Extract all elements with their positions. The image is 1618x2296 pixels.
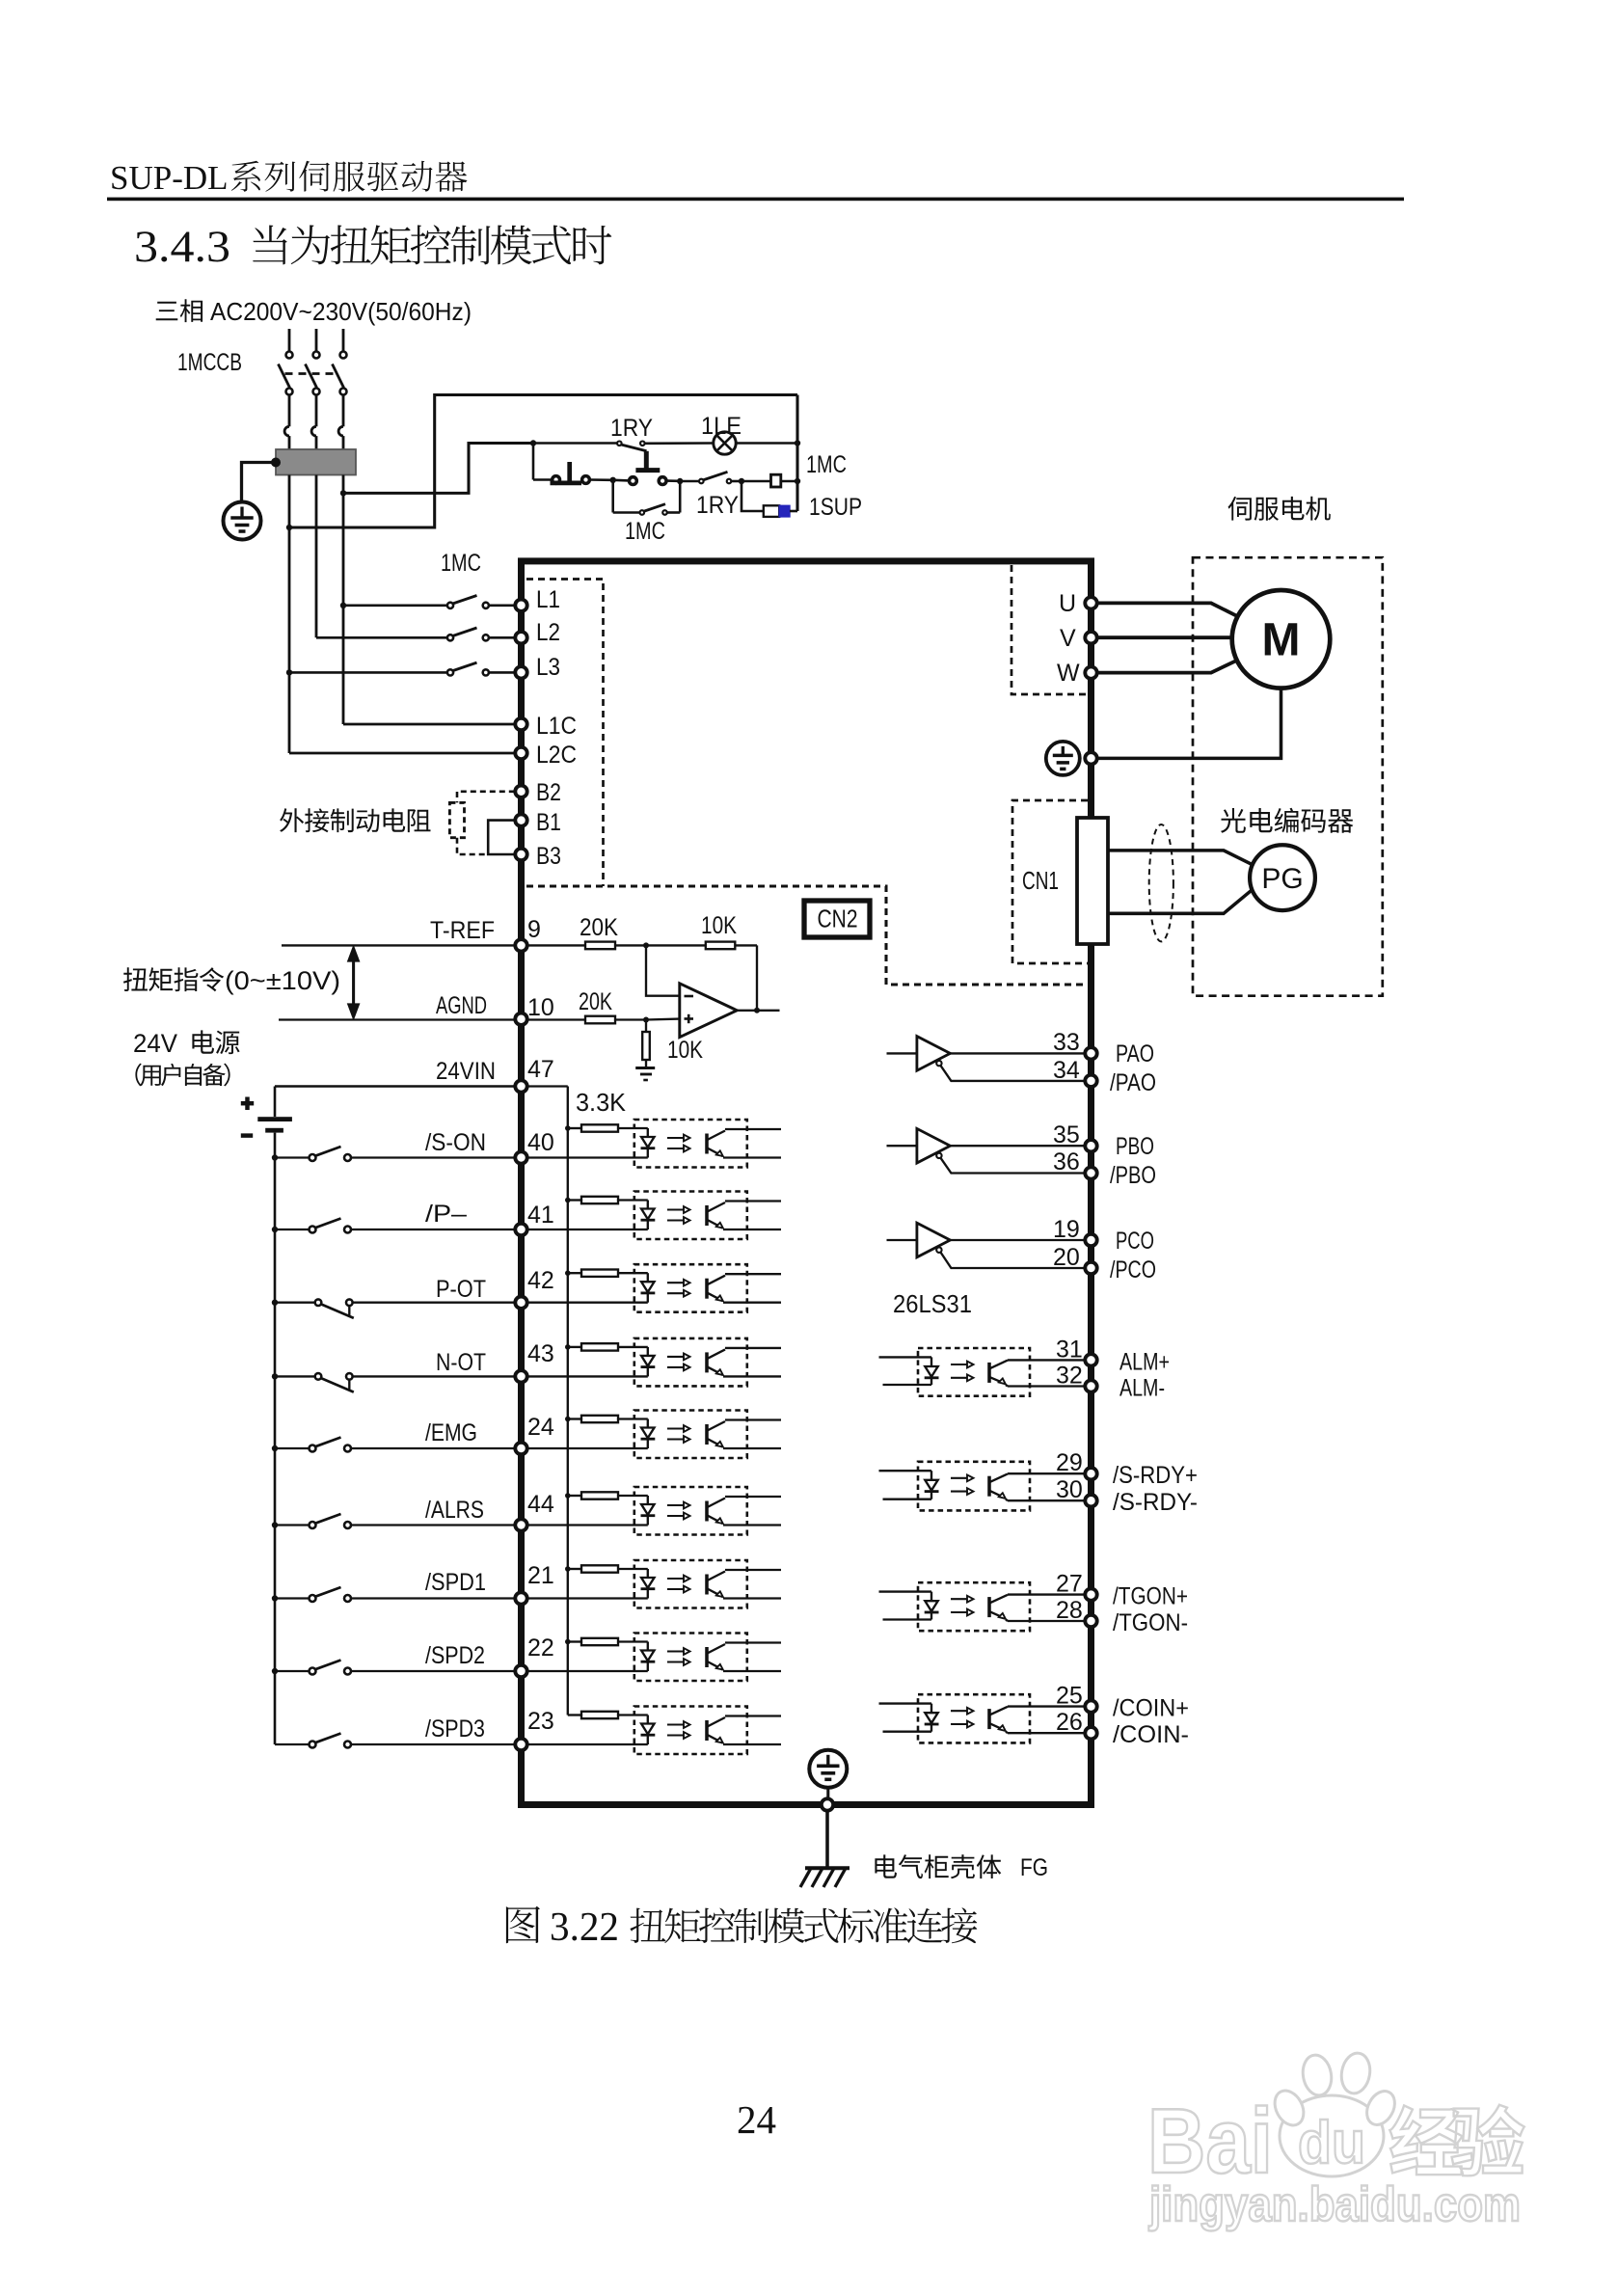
svg-text:1RY: 1RY [610,415,653,442]
label user supplied [135,1064,229,1087]
terminal pin 33 [1085,1047,1096,1059]
pushbutton stop (NC) [533,478,553,481]
svg-text:20K: 20K [579,988,612,1015]
wire pin47 to pull-up bus [527,1085,568,1087]
connector label CN2 [804,901,870,937]
resistor 10K feedback [646,944,706,946]
node top-right corner [795,440,800,446]
node phase R control tap [340,490,346,496]
svg-text:32: 32 [1056,1363,1083,1390]
terminal pin 9 [515,939,526,951]
terminal V [1085,632,1096,643]
svg-text:41: 41 [527,1202,554,1229]
wire FG to chassis [825,1811,829,1869]
svg-text:44: 44 [527,1491,554,1518]
earth electrode symbol (left) [224,502,261,540]
label torque command 0-±10V [123,967,224,991]
label external braking resistor [280,808,431,832]
terminal pin 26 [1085,1727,1096,1739]
jumper B1-B3 [488,821,515,854]
svg-text:33: 33 [1053,1029,1080,1056]
terminal U [1085,597,1096,608]
svg-text:3.4.3: 3.4.3 [134,222,230,272]
dashed UVW terminal group box [1011,565,1088,694]
wire relay rail down to stop button [532,444,535,480]
svg-text:(0~±10V): (0~±10V) [225,966,340,995]
svg-text:PBO: PBO [1116,1133,1154,1160]
battery 24V [274,1087,277,1118]
svg-text:/ALRS: /ALRS [425,1497,484,1524]
svg-text:M: M [1262,615,1301,666]
servo drive enclosure [522,561,1092,1805]
svg-text:CN2: CN2 [818,905,858,933]
wire B2 dashed to resistor [457,792,515,803]
opto-isolator input [634,1634,747,1682]
svg-text:U: U [1059,590,1076,617]
line driver 26LS31 for PBO [887,1145,917,1147]
svg-text:/PBO: /PBO [1110,1162,1156,1189]
terminal pin 31 [1085,1354,1096,1365]
svg-text:du: du [1298,2110,1365,2176]
wire V to motor [1097,635,1232,639]
terminal PE right [1085,752,1096,764]
svg-text:/PCO: /PCO [1110,1256,1156,1283]
node phase R to L1 contact [340,603,346,608]
node inverting input [643,942,649,948]
wire phase S vertical [315,475,318,638]
svg-text:43: 43 [527,1340,554,1367]
svg-text:23: 23 [527,1708,554,1735]
surge suppressor 1SUP [742,481,764,511]
switch /SPD3 [275,1743,310,1745]
terminal L1C [515,718,526,730]
watermark jingyan characters [1389,2105,1524,2175]
svg-text:FG: FG [1020,1854,1048,1881]
svg-text:L1: L1 [536,586,560,613]
line driver 26LS31 for PCO [887,1239,917,1241]
svg-text:1MC: 1MC [806,451,847,478]
wire encoder B [1108,890,1252,913]
svg-text:9: 9 [527,916,541,943]
svg-text:ALM-: ALM- [1119,1375,1165,1402]
contactor 1MC main contacts (arcs) [284,426,289,436]
svg-text:34: 34 [1053,1057,1080,1084]
resistor 3.3K row pin 42 [565,1270,571,1276]
svg-text:36: 36 [1053,1148,1080,1175]
earth symbol right [1046,742,1080,775]
dashed CN2 boundary [526,886,1087,985]
svg-text:P-OT: P-OT [436,1276,486,1303]
svg-text:10K: 10K [667,1037,703,1064]
resistor 3.3K row pin 22 [565,1639,571,1645]
svg-text:PAO: PAO [1116,1040,1154,1067]
terminal pin 47 [515,1080,526,1092]
connector CN1 [1077,818,1108,944]
svg-text:31: 31 [1056,1336,1083,1363]
wire W to motor [1097,660,1238,672]
wire phase T vertical [288,475,291,754]
terminal pin 25 [1085,1700,1096,1712]
svg-text:29: 29 [1056,1449,1083,1476]
svg-text:20: 20 [1053,1244,1080,1271]
switch /SPD1 [272,1595,278,1601]
wire control feed B (phase R to relay rail) [343,444,533,494]
line driver 26LS31 for PAO [887,1052,917,1054]
opto-isolator input [634,1411,747,1459]
terminal pin 41 [515,1224,526,1235]
svg-text:B2: B2 [536,779,561,806]
svg-text:CN1: CN1 [1022,866,1059,895]
node phase T to L3 contact [286,669,292,675]
svg-text:/SPD1: /SPD1 [425,1569,486,1596]
svg-text:24V: 24V [133,1029,177,1058]
coil 1MC [742,480,771,483]
wire AGND input [279,1018,515,1020]
svg-text:/EMG: /EMG [425,1419,477,1446]
switch /ALRS [272,1522,278,1527]
wire phase T to L2C [289,752,515,755]
terminal pin 44 [515,1519,526,1530]
svg-text:/SPD3: /SPD3 [425,1715,485,1742]
pushbutton start (NO) [613,478,630,481]
opto-isolator input [634,1707,747,1755]
wire phase R vertical [342,475,345,725]
resistor 3.3K row pin 44 [565,1493,571,1499]
svg-text:/COIN+: /COIN+ [1113,1695,1189,1722]
wire motor frame to PE [1097,689,1281,759]
terminal pin 30 [1085,1495,1096,1506]
svg-text:30: 30 [1056,1476,1083,1503]
terminal L2C [515,747,526,759]
opto-isolator output /COIN+ [918,1694,1030,1742]
wire resistor dashed to B3 [457,838,486,854]
terminal pin 21 [515,1592,526,1604]
svg-text:/S-RDY-: /S-RDY- [1113,1489,1198,1516]
resistor 20K (AGND) [527,1018,585,1020]
svg-text:10: 10 [527,994,554,1021]
svg-text:35: 35 [1053,1121,1080,1148]
contact 1MC self-holding [611,480,614,513]
svg-text:/PAO: /PAO [1110,1069,1156,1096]
svg-text:B3: B3 [536,843,561,870]
node noninverting input [643,1017,649,1023]
resistor 10K to analog ground [645,1020,647,1033]
svg-text:24: 24 [737,2097,776,2142]
opto-isolator output ALM+ [918,1348,1030,1396]
opto-isolator input [634,1487,747,1535]
analog ground symbol [635,1067,655,1069]
contact 1MC pole 3 [289,671,446,674]
svg-text:27: 27 [1056,1571,1083,1598]
svg-text:10K: 10K [701,912,737,939]
op-amp U1 [680,984,738,1038]
svg-text:jingyan.baidu.com: jingyan.baidu.com [1148,2177,1521,2231]
terminal pin 23 [515,1739,526,1750]
node start-branch right [677,478,683,484]
label three-phase AC200V-230V 50/60Hz [156,299,202,322]
breaker 1MCCB [288,329,291,352]
opto-isolator input [634,1264,747,1312]
opto-isolator input [634,1120,747,1168]
opto-isolator input [634,1560,747,1608]
label servo motor [1228,497,1331,521]
wire filter to earth [242,463,277,502]
motor M [1232,590,1331,689]
svg-text:AGND: AGND [436,992,487,1019]
opto-isolator output /S-RDY+ [918,1462,1030,1511]
svg-text:19: 19 [1053,1216,1080,1243]
svg-text:42: 42 [527,1267,554,1294]
wire control feed A (phase T to top rail) [289,395,797,528]
svg-text:W: W [1057,660,1080,687]
terminal pin 32 [1085,1380,1096,1391]
watermark paw pad [1280,2095,1384,2176]
limit switch N-OT [272,1373,278,1379]
terminal pin 27 [1085,1588,1096,1600]
svg-text:ALM+: ALM+ [1119,1348,1170,1375]
switch /P– [272,1227,278,1232]
label optical encoder [1221,808,1353,833]
svg-text:V: V [1060,625,1076,652]
svg-text:26: 26 [1056,1709,1083,1736]
node relay rail left [530,440,536,446]
watermark paw toes [1269,2086,1309,2130]
relay contact 1RY (top) [533,442,617,445]
svg-text:1MC: 1MC [625,518,665,545]
svg-text:24: 24 [527,1414,554,1441]
switch /S-ON [272,1154,278,1160]
svg-text:3.3K: 3.3K [576,1088,627,1117]
svg-text:20K: 20K [580,914,618,941]
svg-text:/TGON-: /TGON- [1113,1609,1188,1636]
node phase T control tap [286,525,292,530]
switch /EMG [272,1445,278,1451]
contact 1MC pole 2 [316,636,446,639]
wire to op-amp inverting [646,945,680,995]
relay contact 1RY (seal-in row) [680,480,699,483]
svg-text:3.22: 3.22 [550,1905,619,1950]
node start-branch left [610,477,616,483]
svg-text:1SUP: 1SUP [809,494,862,521]
wire 24V positive to pin 47 [275,1085,515,1088]
terminal L2 [515,632,526,643]
noise filter block [276,449,356,475]
terminal L3 [515,666,526,678]
terminal pin 34 [1085,1075,1096,1087]
dashed servo motor box [1193,557,1383,995]
svg-text:L2: L2 [536,619,560,646]
svg-text:PCO: PCO [1116,1228,1154,1255]
wire U to motor [1097,603,1238,616]
svg-text:28: 28 [1056,1597,1083,1624]
svg-text:PG: PG [1261,863,1303,895]
terminal pin 10 [515,1013,526,1025]
terminal pin 28 [1085,1615,1096,1627]
svg-text:24VIN: 24VIN [436,1058,496,1085]
terminal FG on bottom edge [822,1798,833,1810]
resistor 3.3K row pin 23 [568,1714,581,1715]
terminal pin 24 [515,1443,526,1454]
svg-text:1MCCB: 1MCCB [177,349,242,376]
terminal pin 20 [1085,1262,1096,1274]
resistor 20K (T-REF) [527,944,585,946]
terminal L1 [515,600,526,611]
svg-text:/P–: /P– [425,1201,467,1228]
terminal B1 [515,814,526,825]
svg-text:SUP-DL: SUP-DL [110,159,229,197]
terminal pin 19 [1085,1234,1096,1246]
opto-isolator input [634,1192,747,1240]
resistor 3.3K row pin 41 [565,1198,571,1203]
svg-text:47: 47 [527,1056,554,1083]
limit switch P-OT [272,1300,278,1306]
resistor external braking (dashed) [449,802,464,837]
wire T-REF input [282,944,515,946]
terminal pin 42 [515,1297,526,1309]
terminal pin 40 [515,1151,526,1163]
svg-text:40: 40 [527,1129,554,1156]
svg-text:L1C: L1C [536,713,577,740]
svg-text:L2C: L2C [536,742,577,769]
contact 1MC pole 1 [343,604,446,607]
svg-text:21: 21 [527,1562,554,1589]
wire 24V negative rail [274,1133,277,1744]
svg-text:/S-ON: /S-ON [425,1129,486,1156]
node feedback junction [756,945,758,1010]
svg-text:/S-RDY+: /S-RDY+ [1113,1462,1198,1489]
differential arrow [352,954,355,1012]
svg-text:/SPD2: /SPD2 [425,1642,485,1669]
junction ground tap on filter [271,458,281,468]
svg-text:1LE: 1LE [701,413,742,440]
terminal B2 [515,786,526,797]
wire right rail vertical [796,395,798,512]
dashed CN1 group box [1012,800,1088,963]
resistor 3.3K row pin 21 [565,1566,571,1572]
figure caption 3.22 torque control standard wiring [506,1906,540,1943]
svg-text:26LS31: 26LS31 [893,1289,972,1318]
wire phase R to L1C [343,723,515,726]
svg-text:N-OT: N-OT [436,1349,486,1376]
encoder PG [1250,845,1315,910]
dashed power terminal group box [526,580,604,887]
earth symbol above bottom edge [809,1750,847,1788]
svg-text:T-REF: T-REF [430,917,495,944]
switch /SPD2 [272,1668,278,1674]
cable shield ellipse [1149,824,1173,941]
svg-text:L3: L3 [536,654,560,681]
terminal pin 36 [1085,1167,1096,1178]
svg-text:22: 22 [527,1634,554,1661]
resistor 3.3K row pin 40 [565,1125,571,1131]
svg-text:AC200V~230V(50/60Hz): AC200V~230V(50/60Hz) [210,297,472,326]
indicator lamp 1LE [714,432,736,454]
pull-up bus vertical [567,1087,569,1715]
resistor 3.3K row pin 43 [565,1344,571,1350]
header rule [107,198,1404,202]
label electrical cabinet shell FG [875,1854,1001,1878]
resistor 3.3K row pin 24 [565,1417,571,1422]
svg-text:1RY: 1RY [696,492,739,519]
terminal pin 29 [1085,1468,1096,1479]
svg-text:/COIN-: /COIN- [1113,1721,1189,1748]
terminal pin 22 [515,1665,526,1677]
svg-text:25: 25 [1056,1683,1083,1710]
svg-text:1MC: 1MC [441,550,481,577]
terminal W [1085,666,1096,678]
opto-isolator input [634,1338,747,1387]
chassis ground symbol [805,1866,849,1870]
node coil branch [739,478,744,484]
svg-text:B1: B1 [536,809,561,836]
opto-isolator output /TGON+ [918,1582,1030,1631]
svg-text:/TGON+: /TGON+ [1113,1583,1188,1610]
wire encoder A [1108,851,1252,864]
wire op-amp output [737,1010,779,1012]
terminal pin 35 [1085,1140,1096,1151]
terminal B3 [515,849,526,860]
terminal pin 43 [515,1370,526,1382]
